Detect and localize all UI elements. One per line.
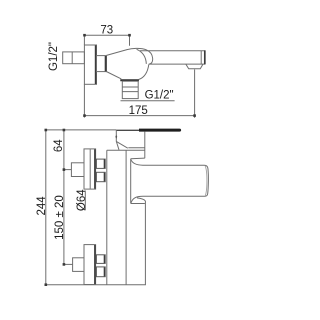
tick to lower union centre: [64, 263, 73, 265]
block bottom band lines: [128, 147, 145, 149]
wall flange (escutcheon, side): [84, 45, 96, 84]
body outline: [107, 150, 146, 284]
top extension line (body top): [46, 129, 117, 131]
svg-text:244: 244: [36, 196, 48, 216]
svg-text:73: 73: [100, 24, 113, 36]
neck right edge under spout: [144, 132, 146, 159]
dim 73 arrowheads: [83, 34, 131, 37]
step line above handle: [131, 157, 145, 160]
upper union flange: [84, 149, 96, 189]
spout end cap: [200, 51, 202, 64]
block corner shade diamond: [115, 135, 117, 139]
label diameter 64 underline: [84, 191, 86, 211]
dim 244 arrowheads: [45, 129, 48, 286]
lower union flange: [84, 245, 96, 285]
extension line from spout tip: [194, 69, 196, 117]
collar between flange and body: [97, 56, 107, 72]
dim 73 right extension line: [129, 35, 131, 46]
body underside diagonal to shower outlet: [106, 72, 121, 79]
body underside curve right of outlet up to spout: [139, 64, 149, 79]
dim 64 / 150+-20 chained dimension line: [63, 130, 65, 265]
dim 175 arrowheads: [83, 114, 196, 117]
lower union nipple: [73, 258, 84, 272]
dim 73 dimension line: [84, 34, 129, 36]
upper union nipple: [71, 163, 84, 177]
dim 73 left extension / wall flange left edge extended: [83, 35, 85, 117]
dim 175 dimension line: [84, 115, 194, 117]
dim 244 dimension line: [45, 130, 47, 285]
upper union nut: [96, 159, 105, 182]
svg-text:175: 175: [129, 105, 148, 117]
block bevel diagonals: [116, 141, 128, 148]
body top block left edge: [107, 130, 145, 159]
svg-text:150 ± 20: 150 ± 20: [54, 195, 66, 240]
svg-text:G1/2": G1/2": [145, 89, 174, 101]
dim 64/150 arrowheads: [63, 129, 66, 266]
svg-text:64: 64: [53, 139, 65, 152]
svg-text:G1/2": G1/2": [48, 42, 60, 71]
spout seen from front (dark bar): [116, 129, 140, 131]
svg-text:Ø64: Ø64: [76, 189, 88, 211]
bottom extension line / body bottom: [46, 284, 146, 286]
inlet nipple: [63, 52, 85, 64]
inner seam arc on body right: [137, 49, 147, 64]
lower union nut: [96, 255, 105, 277]
spout bar (side): [140, 50, 205, 64]
aerator tip under spout end: [186, 64, 203, 69]
label G1/2" leader underline (shower outlet): [121, 100, 175, 102]
shower outlet thread (below body): [120, 80, 139, 98]
handle lever (front): [131, 160, 209, 204]
mixer body / handle egg profile: [106, 48, 152, 79]
handle tip inner contour: [205, 166, 207, 196]
tick to upper union centre: [64, 169, 72, 171]
